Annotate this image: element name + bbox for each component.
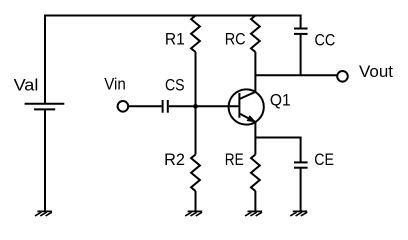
wire: top rail to CC xyxy=(300,15,302,29)
wire: RC to Q1 collector xyxy=(254,52,256,92)
svg-text:Q1: Q1 xyxy=(270,91,291,109)
resistor R1 xyxy=(191,16,200,53)
wire: battery negative to ground xyxy=(44,109,46,211)
wire: junction to R2 xyxy=(195,106,197,154)
wire: CS to base junction xyxy=(169,105,196,107)
battery Val xyxy=(25,104,65,110)
junction: base node xyxy=(193,104,198,109)
capacitor CC xyxy=(294,29,308,34)
capacitor CE xyxy=(294,162,308,167)
wire: RE to ground xyxy=(254,191,256,211)
svg-text:Val: Val xyxy=(14,76,39,94)
svg-text:Vout: Vout xyxy=(359,63,394,81)
wire: top rail xyxy=(44,15,302,17)
svg-text:Vin: Vin xyxy=(104,75,126,93)
svg-text:CE: CE xyxy=(314,151,334,169)
wire: R1 to base junction xyxy=(195,52,197,107)
resistor RC xyxy=(251,16,260,53)
resistor RE xyxy=(251,155,260,192)
terminal Vout xyxy=(337,71,348,82)
resistor R2 xyxy=(191,155,200,192)
wire: CC to output wire xyxy=(300,34,302,75)
wire: left rail from top rail to battery xyxy=(44,15,46,104)
svg-text:RC: RC xyxy=(225,31,246,49)
ground (RE) xyxy=(245,211,262,216)
wire: CE branch down to CE xyxy=(300,137,302,163)
svg-text:RE: RE xyxy=(225,151,244,169)
wire: emitter node to CE branch xyxy=(255,137,300,139)
ground (CE) xyxy=(290,211,307,216)
wire: Vin to CS xyxy=(128,105,161,107)
wire: junction to Q1 base xyxy=(196,105,240,107)
wire: collector node to Vout xyxy=(255,74,337,76)
svg-text:CC: CC xyxy=(315,31,336,49)
transistor Q1 xyxy=(229,89,264,124)
wire: R2 to ground xyxy=(195,191,197,211)
wire: CE to ground xyxy=(300,168,302,212)
svg-text:R2: R2 xyxy=(164,151,185,169)
ground (battery) xyxy=(35,211,52,216)
svg-text:R1: R1 xyxy=(165,31,185,49)
wire: Q1 emitter down to RE xyxy=(254,122,256,155)
ground (R2) xyxy=(185,211,202,216)
capacitor CS xyxy=(163,100,168,113)
svg-text:CS: CS xyxy=(165,76,185,94)
terminal Vin xyxy=(118,101,129,112)
